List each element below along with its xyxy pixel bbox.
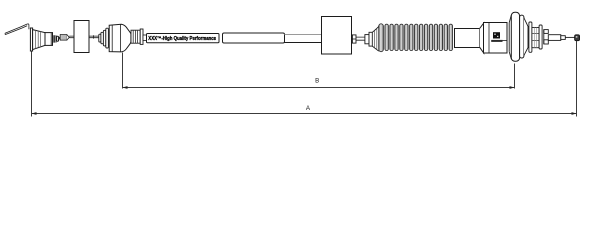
svg-text:B: B — [315, 77, 319, 84]
svg-text:XXX™-High Quality Performance: XXX™-High Quality Performance — [148, 36, 216, 42]
